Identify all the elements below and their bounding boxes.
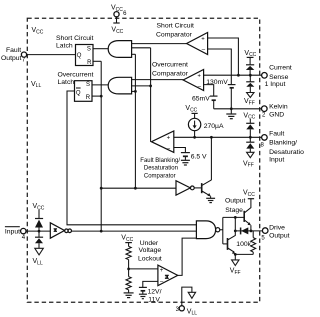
svg-text:Voltage: Voltage bbox=[139, 247, 162, 254]
node VCC label top-left bbox=[32, 27, 44, 35]
overcurrent latch U2 label bbox=[58, 72, 94, 87]
node VLL label left bbox=[31, 81, 41, 89]
wire divider node bbox=[129, 260, 158, 277]
wire latch2 S to AND2 bbox=[92, 84, 109, 86]
wire AND1 in2 bbox=[132, 47, 151, 49]
output stage label bbox=[225, 198, 246, 214]
junction inverter feed bbox=[100, 187, 103, 190]
svg-text:Blanking/: Blanking/ bbox=[269, 140, 297, 147]
blanking discharge inverter U6 bbox=[176, 181, 202, 195]
VFF clamp diode below current sense bbox=[244, 75, 255, 106]
svg-text:Overcurrent: Overcurrent bbox=[58, 72, 94, 79]
VCC clamp diode above desat input bbox=[243, 112, 255, 137]
fault blanking desaturation comparator U5 label bbox=[140, 158, 180, 180]
ground symbol on rail bbox=[226, 109, 236, 119]
input schmitt buffer U7 bbox=[50, 223, 71, 238]
svg-text:Output: Output bbox=[1, 55, 22, 62]
svg-text:Output: Output bbox=[269, 233, 290, 240]
wire output stage bottom bbox=[235, 253, 253, 255]
wire latch2 Qbar to NAND bbox=[67, 91, 196, 225]
svg-text:GND: GND bbox=[269, 112, 284, 119]
junction desat discharge bbox=[210, 136, 213, 139]
svg-text:Fault: Fault bbox=[269, 130, 284, 137]
wire internal ground rail to Kelvin GND bbox=[214, 108, 262, 110]
svg-text:R: R bbox=[87, 60, 92, 66]
svg-text:Input: Input bbox=[269, 157, 284, 164]
svg-text:Input: Input bbox=[5, 228, 20, 235]
short circuit latch box bbox=[76, 45, 94, 66]
svg-text:12V/: 12V/ bbox=[148, 289, 162, 296]
svg-text:Q: Q bbox=[76, 90, 81, 96]
resistor R2 bbox=[126, 277, 131, 290]
svg-text:Lockout: Lockout bbox=[138, 255, 162, 262]
wire latch2 R bbox=[92, 95, 101, 97]
pin 6 VCC terminal bbox=[111, 5, 127, 18]
short circuit comparator U3 label bbox=[156, 23, 194, 39]
overcurrent comparator U4 label bbox=[152, 61, 189, 77]
svg-text:Q: Q bbox=[77, 53, 82, 59]
svg-text:Stage: Stage bbox=[225, 207, 243, 214]
svg-text:Drive: Drive bbox=[269, 225, 285, 232]
input ESD diode to VCC bbox=[33, 203, 45, 231]
svg-text:Under: Under bbox=[140, 240, 159, 247]
junction schmitt output reset bus bbox=[100, 230, 103, 233]
wire latch1 R bbox=[93, 60, 101, 62]
wire schmitt output to NAND bbox=[72, 230, 197, 232]
wire reset bus vertical bbox=[100, 61, 102, 231]
wire input gating bus vertical bbox=[134, 54, 136, 188]
resistor 100k bbox=[236, 231, 255, 255]
junction AND2 in2 bbox=[149, 85, 152, 88]
wire AND2 in1 from overcurrent comparator bbox=[132, 79, 184, 81]
junction input ESD bbox=[38, 230, 41, 233]
junction SCC plus on rail bbox=[237, 74, 240, 77]
UVLO comparator U8 bbox=[158, 265, 178, 286]
wire SCC plus input bbox=[208, 38, 239, 75]
wire input to buffer bbox=[26, 230, 50, 232]
pull-up transistor Q2 bbox=[244, 199, 251, 231]
svg-text:Short Circuit: Short Circuit bbox=[56, 35, 94, 42]
svg-text:+: + bbox=[160, 268, 164, 274]
junction bottom VFF bbox=[234, 253, 237, 256]
wire AND2 in2 bbox=[132, 85, 151, 87]
wire desat node rail bbox=[174, 136, 262, 138]
wire NAND output node bbox=[220, 217, 244, 244]
svg-text:130mV: 130mV bbox=[206, 79, 228, 86]
pin 1 Current Sense Input terminal bbox=[262, 65, 292, 89]
junction desat current source bbox=[193, 136, 196, 139]
svg-text:Fault Blanking/: Fault Blanking/ bbox=[140, 158, 180, 164]
wire base to collector tie bbox=[234, 217, 236, 231]
battery 65mV bbox=[192, 95, 218, 108]
overcurrent latch box bbox=[75, 81, 93, 102]
wire latch1 S to AND1 bbox=[93, 48, 109, 50]
svg-text:Current: Current bbox=[269, 65, 292, 72]
junction output node right bbox=[250, 230, 253, 233]
svg-text:Output: Output bbox=[225, 198, 246, 205]
svg-text:Comparator: Comparator bbox=[156, 32, 193, 39]
AND gate G2 (mirrored) bbox=[108, 77, 131, 94]
svg-text:Sense: Sense bbox=[269, 74, 288, 81]
VCC feed output stage bbox=[243, 189, 255, 198]
current source 270uA bbox=[185, 105, 224, 137]
pin 7 Fault Output terminal bbox=[1, 47, 27, 64]
UVLO VCC divider bbox=[121, 235, 133, 247]
svg-text:+: + bbox=[197, 73, 201, 79]
svg-text:6.5 V: 6.5 V bbox=[191, 154, 207, 161]
diode D1 output clamp bbox=[235, 227, 262, 234]
svg-text:11V: 11V bbox=[148, 296, 160, 303]
svg-text:Desaturation: Desaturation bbox=[269, 149, 304, 156]
pin 8 Fault Blanking Desaturation Input terminal bbox=[261, 130, 308, 163]
svg-text:Comparator: Comparator bbox=[144, 174, 176, 180]
fault blanking comparator triangle bbox=[151, 131, 173, 152]
svg-text:65mV: 65mV bbox=[192, 95, 210, 102]
svg-text:Latch: Latch bbox=[58, 79, 75, 86]
wire UVLO output to NAND bbox=[178, 238, 197, 275]
svg-text:Desaturation: Desaturation bbox=[144, 165, 178, 171]
svg-text:S: S bbox=[86, 82, 90, 88]
junction gating bus end bbox=[134, 187, 137, 190]
wire AND1 in3 bbox=[132, 53, 136, 55]
junction latch2 R bbox=[100, 95, 103, 98]
junction clamp on rail bbox=[249, 74, 252, 77]
junction ground rail bbox=[230, 107, 233, 110]
svg-text:+: + bbox=[201, 36, 205, 42]
short circuit latch U1 label bbox=[56, 35, 94, 50]
battery 12V/11V with ground bbox=[139, 287, 162, 303]
svg-text:Kelvin: Kelvin bbox=[269, 104, 288, 111]
ground at divider bottom bbox=[124, 290, 134, 298]
svg-text:Comparator: Comparator bbox=[152, 71, 189, 78]
svg-text:Short Circuit: Short Circuit bbox=[157, 23, 195, 30]
svg-text:Fault: Fault bbox=[6, 47, 21, 54]
pin 2 Kelvin GND terminal bbox=[262, 104, 288, 119]
discharge transistor Q1 bbox=[202, 137, 212, 196]
ground at discharge transistor bbox=[206, 196, 215, 202]
wire blanking comparator output bus bbox=[150, 48, 152, 142]
short circuit comparator triangle bbox=[187, 33, 208, 55]
pin 3 VLL terminal bbox=[176, 287, 198, 317]
AND gate G1 (mirrored) bbox=[108, 41, 131, 58]
wire SCC minus input to 130mV bbox=[208, 49, 232, 84]
junction output node left bbox=[234, 230, 237, 233]
overcurrent comparator triangle bbox=[183, 70, 203, 91]
svg-text:+: + bbox=[167, 136, 171, 142]
svg-text:270µA: 270µA bbox=[204, 123, 224, 130]
svg-text:100k: 100k bbox=[236, 241, 251, 248]
wire OCC minus to 65mV bbox=[204, 85, 214, 96]
svg-text:R: R bbox=[86, 95, 91, 101]
wire fault output to latch bbox=[27, 54, 76, 56]
output NAND gate G3 bbox=[196, 221, 219, 239]
junction divider node bbox=[127, 268, 130, 271]
wire AND1 in1 from short circuit comparator bbox=[132, 43, 187, 45]
VCC clamp diode above current sense bbox=[244, 50, 256, 75]
wire pin6 stem to VCC rail bbox=[111, 17, 123, 35]
wire AND2 in3 bbox=[132, 90, 136, 92]
wire UVLO minus to reference bbox=[143, 281, 158, 287]
battery 6.5V with ground bbox=[181, 153, 207, 165]
wire input buffer to blanking inverter bbox=[101, 187, 176, 189]
resistor R1 bbox=[126, 246, 131, 259]
IC boundary dashed box bbox=[27, 18, 259, 302]
svg-text:S: S bbox=[87, 46, 91, 52]
under voltage lockout label bbox=[138, 240, 162, 262]
svg-text:Latch: Latch bbox=[56, 43, 73, 50]
junction desat clamp bbox=[249, 136, 252, 139]
battery 130mV bbox=[206, 79, 235, 109]
pull-down transistor Q3 bbox=[228, 231, 236, 254]
pin 5 Drive Output terminal bbox=[261, 225, 289, 242]
input ESD diode to VLL bbox=[33, 231, 44, 267]
wire current sense rail bbox=[204, 74, 262, 76]
wire blanking minus to 6.5V bbox=[174, 148, 186, 153]
svg-text:1 Input: 1 Input bbox=[265, 81, 286, 88]
svg-text:Overcurrent: Overcurrent bbox=[152, 61, 188, 68]
junction AND2 in3 bbox=[134, 90, 137, 93]
VFF clamp diode below desat input bbox=[243, 137, 254, 168]
VFF arrow output stage bbox=[230, 254, 241, 275]
junction upper base bus bbox=[234, 216, 237, 219]
pin 4 Input terminal bbox=[5, 227, 26, 242]
